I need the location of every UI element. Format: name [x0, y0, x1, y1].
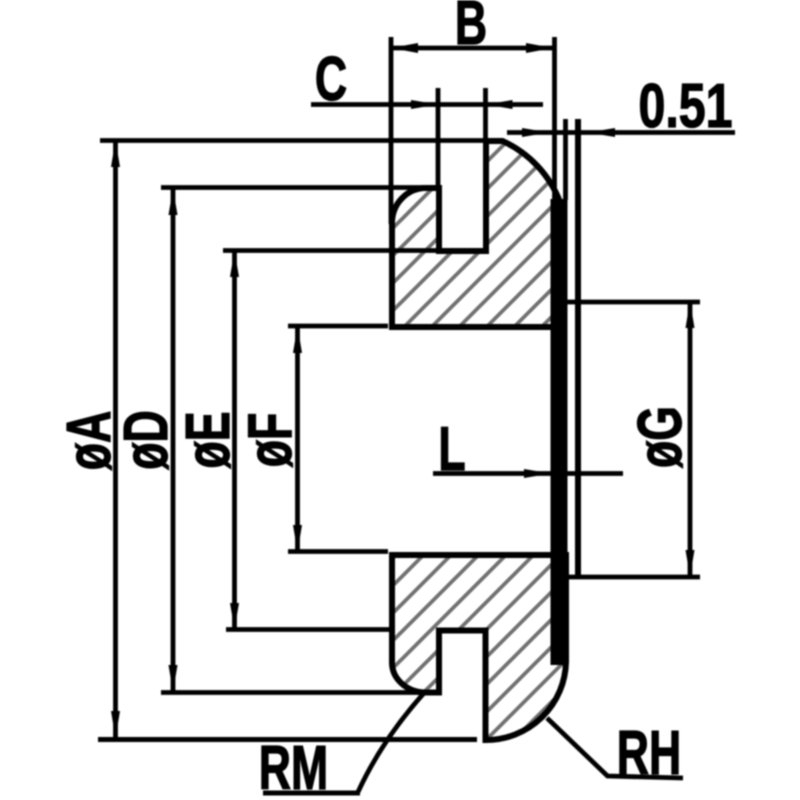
0.51 right arrowhead (points left) — [588, 128, 615, 137]
RM underline — [263, 791, 360, 796]
øF bottom extension line — [288, 549, 388, 554]
grommet upper body section (hatched) — [392, 141, 560, 327]
0.51 inner extension tick — [563, 119, 568, 200]
øA top extension line (flange top edge level) — [100, 138, 490, 143]
B dimension line — [391, 46, 553, 51]
grommet lower body section (hatched) — [392, 555, 566, 740]
bore top line stub under face band — [540, 325, 567, 330]
C left arrowhead (points right) — [411, 100, 438, 109]
0.51 dimension line — [507, 130, 735, 135]
L dimension line — [433, 471, 623, 476]
øF bottom arrowhead — [293, 525, 302, 552]
øE dimension line — [232, 251, 237, 630]
øE bottom arrowhead — [230, 603, 239, 630]
boss top edge + øG top extension line — [551, 300, 700, 305]
svg-text:B: B — [455, 0, 487, 58]
øD bottom extension line — [161, 690, 441, 695]
B left extension line — [389, 37, 394, 224]
øF dimension line — [295, 326, 300, 552]
øA bottom arrowhead — [111, 711, 120, 738]
svg-text:0.51: 0.51 — [638, 71, 732, 140]
øD top extension line — [161, 185, 436, 190]
C left extension line — [436, 88, 441, 190]
RM leader line — [358, 693, 424, 792]
thick right face line of flange — [551, 199, 568, 665]
øD bottom arrowhead — [169, 665, 178, 692]
øG dimension line — [688, 301, 693, 577]
svg-text:øE: øE — [174, 411, 243, 468]
svg-text:RH: RH — [617, 719, 681, 788]
øA dimension line — [113, 140, 118, 738]
svg-text:øD: øD — [112, 410, 181, 470]
øE bottom extension line — [226, 627, 392, 632]
bore bottom line stub under face band — [540, 553, 567, 558]
øA top arrowhead — [111, 140, 120, 167]
øD dimension line — [171, 189, 176, 693]
boss bottom edge + øG bottom extension line — [551, 575, 700, 580]
B left arrowhead — [391, 43, 418, 53]
svg-text:L: L — [438, 415, 465, 484]
øA bottom extension line (flange bottom edge level) — [98, 737, 477, 742]
0.51 left arrowhead (points right) — [522, 128, 549, 137]
L arrowhead (points right at body face) — [524, 469, 551, 478]
svg-text:C: C — [315, 45, 347, 114]
svg-text:RM: RM — [259, 734, 328, 800]
øE top extension line (through lip to groove root) — [223, 248, 486, 253]
C right arrowhead (points left) — [486, 100, 513, 109]
B right arrowhead — [526, 43, 553, 53]
RH leader line — [547, 718, 683, 778]
øG top arrowhead — [686, 301, 695, 328]
C dimension line — [311, 102, 543, 107]
svg-text:øF: øF — [236, 413, 305, 468]
svg-text:øG: øG — [626, 406, 695, 468]
øF top arrowhead — [293, 326, 302, 353]
B right extension line — [552, 37, 557, 199]
øD top arrowhead — [169, 189, 178, 216]
øE top arrowhead — [230, 251, 239, 278]
membrane outer face line (0.51 wall) — [575, 119, 581, 577]
øF top extension line — [288, 324, 388, 329]
øG bottom arrowhead — [686, 550, 695, 577]
C right extension line — [483, 88, 488, 143]
